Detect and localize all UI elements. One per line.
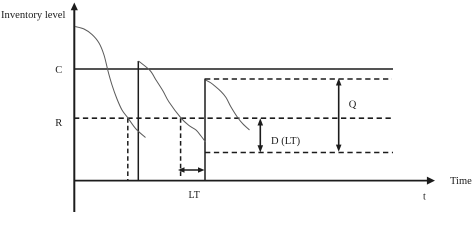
- x-axis arrowhead: [427, 177, 435, 185]
- svg-text:Inventory level: Inventory level: [1, 10, 65, 21]
- vertical dashed line: second reorder time: [180, 118, 182, 179]
- y-axis: [73, 9, 75, 212]
- lower dashed line (bottom of Q span): [205, 152, 393, 154]
- upper dashed line (top of replenished stock): [205, 78, 392, 80]
- svg-text:C: C: [55, 65, 62, 76]
- svg-text:Q: Q: [349, 100, 357, 111]
- inventory depletion curve 2: [139, 61, 206, 142]
- C level solid line: [74, 68, 393, 70]
- LT double arrow: [178, 167, 205, 173]
- x-axis: [74, 180, 428, 182]
- svg-text:t: t: [423, 192, 426, 203]
- R reorder-point dashed line: [74, 117, 392, 119]
- svg-text:Time: Time: [450, 176, 472, 187]
- vertical solid line: second replenishment: [204, 79, 206, 181]
- inventory depletion curve 1: [75, 27, 146, 138]
- D(LT) double arrow: [258, 118, 264, 152]
- y-axis arrowhead: [71, 3, 78, 11]
- vertical dashed line: first reorder time: [127, 118, 129, 180]
- svg-text:D (LT): D (LT): [271, 136, 301, 147]
- inventory depletion curve 3: [206, 80, 250, 130]
- svg-text:R: R: [55, 118, 62, 129]
- Q double arrow: [336, 78, 342, 152]
- vertical solid line: first replenishment: [137, 61, 139, 180]
- svg-text:LT: LT: [189, 190, 200, 201]
